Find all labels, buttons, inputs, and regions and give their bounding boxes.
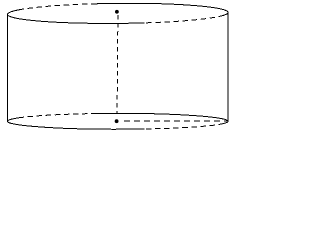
bottom ellipse solid lower-left arc [7,118,144,129]
top ellipse dashed lower-right arc [144,15,223,23]
bottom ellipse dashed lower-right arc [144,123,223,128]
top ellipse dashed upper-left arc [18,4,91,10]
right side wall [227,13,229,122]
dashed radius line [124,120,227,122]
top ellipse solid lower-left arc [7,9,144,25]
top center dot [115,10,119,14]
bottom center dot [115,119,119,123]
cylinder figure [0,0,234,138]
left side wall [7,14,9,121]
top ellipse solid upper-right arc [91,2,228,16]
dashed center axis [116,15,119,113]
bottom ellipse dashed upper-left arc [19,114,91,118]
bottom ellipse solid upper-right arc [91,113,228,123]
